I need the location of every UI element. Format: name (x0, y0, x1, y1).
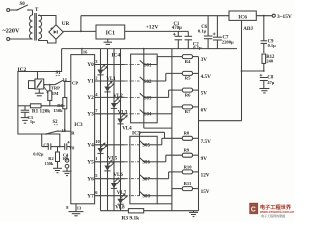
switch S06 (125, 158, 157, 166)
node Y4 output pin 10 (87, 139, 125, 148)
wire secondary top to bridge (39, 15, 56, 25)
switch S04 (125, 110, 157, 118)
wire raw DC riser (80, 16, 82, 32)
switch S1 (49, 71, 63, 86)
svg-text:9V: 9V (201, 156, 208, 162)
svg-text:1M: 1M (52, 91, 59, 96)
label 15V (201, 189, 210, 195)
svg-text:C: C (251, 207, 256, 214)
svg-text:ADJ: ADJ (243, 27, 253, 32)
svg-text:UR: UR (62, 21, 70, 27)
svg-text:7.5V: 7.5V (201, 139, 211, 145)
wire IC5 common bus (140, 132, 165, 196)
LED VL6 (104, 160, 123, 178)
wire jog S06 to R9 (157, 155, 182, 162)
label ~220V (3, 27, 20, 34)
svg-text:IC6: IC6 (238, 14, 247, 20)
svg-text:Y2: Y2 (87, 95, 94, 101)
svg-text:VL6: VL6 (113, 173, 123, 178)
svg-text:0.1μ: 0.1μ (198, 29, 207, 34)
LED VL5 (97, 142, 117, 161)
wire secondary bottom to bridge (39, 39, 56, 43)
wire CP pin14 (62, 77, 71, 82)
svg-text:R5: R5 (185, 76, 191, 81)
wire reset pin15 (58, 128, 71, 133)
svg-text:150k: 150k (45, 161, 54, 166)
svg-text:+12V: +12V (146, 25, 159, 31)
label 4.5V (201, 74, 211, 80)
label 12V (201, 173, 210, 179)
label 3V (201, 57, 208, 63)
svg-text:4.5V: 4.5V (201, 74, 211, 80)
svg-text:6V: 6V (201, 108, 208, 114)
node Y6 output pin 5 (87, 173, 125, 182)
switch S01 (125, 60, 157, 68)
regulator IC6 (229, 11, 256, 32)
ground photo device (35, 89, 44, 96)
LED VL4 (117, 113, 132, 131)
capacitor C2 0.1u (185, 31, 202, 50)
svg-text:Y6: Y6 (87, 176, 94, 182)
LED VL7 (111, 177, 127, 195)
wire +12V rail (125, 25, 189, 32)
svg-text:470μ: 470μ (172, 26, 182, 31)
svg-text:3~15V: 3~15V (277, 14, 292, 20)
svg-text:C5: C5 (43, 142, 49, 147)
ground C8 (259, 89, 269, 93)
resistor R2 150k (45, 147, 60, 169)
wire gap vertical link (171, 49, 173, 211)
regulator IC1 (96, 25, 125, 39)
capacitor C8 47u (260, 74, 275, 89)
label IC2 (18, 67, 27, 73)
svg-text:240: 240 (266, 59, 274, 64)
switch S2 (45, 120, 58, 135)
watermark logo (250, 203, 295, 218)
switch S0 (10, 2, 33, 11)
node Y1 output pin 2 (87, 75, 125, 84)
wire ADJ junction (241, 70, 265, 72)
resistor R10 (182, 164, 198, 174)
svg-text:Y5: Y5 (87, 159, 94, 165)
label 7.5V (201, 139, 211, 145)
capacitor C9 0.1u (261, 15, 277, 53)
LED VL3 (111, 97, 128, 115)
wire LED column 2 (107, 49, 109, 211)
svg-text:47μ: 47μ (267, 80, 274, 85)
wire IC5 box bottom extension (157, 203, 172, 205)
wire jog S08 to R11 (157, 189, 182, 196)
resistor R9 (182, 148, 198, 158)
node AC input terminal top (7, 9, 10, 12)
switch S02 (125, 77, 157, 85)
svg-text:VL3: VL3 (118, 111, 128, 116)
wire jog S04 to R7 (157, 107, 182, 114)
svg-text:IC3: IC3 (74, 122, 83, 128)
node Y2 output pin 4 (87, 92, 125, 101)
svg-text:1μ: 1μ (30, 119, 35, 124)
switch S05 (125, 141, 157, 149)
node Y5 output pin 1 (87, 156, 125, 165)
ground bottom rail (189, 211, 198, 217)
svg-text:150k: 150k (53, 108, 63, 113)
wire bridge output to IC1 (63, 31, 96, 33)
svg-text:15V: 15V (201, 189, 210, 195)
svg-text:S2: S2 (53, 120, 59, 125)
switch S03 (125, 93, 157, 101)
svg-text:电子工程师的家园: 电子工程师的家园 (261, 213, 285, 218)
svg-text:12V: 12V (201, 173, 210, 179)
svg-text:R1 120k: R1 120k (32, 108, 50, 114)
svg-text:Y7: Y7 (87, 193, 94, 199)
node AC input terminal bottom (7, 38, 10, 41)
svg-text:IC2: IC2 (18, 67, 27, 73)
wire jog S02 to R5 (157, 73, 182, 81)
wire IC3 pin16 to rail (81, 48, 88, 55)
node Y7 output pin 6 (87, 190, 125, 199)
LED VL8 (115, 193, 128, 210)
photo receiver IC2 device (29, 72, 50, 90)
svg-text:IC4: IC4 (112, 53, 121, 59)
bridge rectifier UR (49, 21, 70, 39)
svg-text:Y4: Y4 (87, 142, 94, 148)
wire LED column 4 (120, 49, 122, 211)
resistor R0 150k (53, 82, 67, 132)
wire ADJ bus (198, 57, 200, 211)
ground IC3 pins 8 13 (66, 204, 83, 216)
capacitor C6 0.1u (198, 16, 212, 49)
capacitor C4 10u (62, 141, 70, 161)
ground IC1 (104, 39, 112, 44)
label 5V (201, 91, 208, 97)
svg-text:R10: R10 (184, 164, 193, 169)
svg-text:VL8: VL8 (115, 206, 125, 211)
svg-text:0.1μ: 0.1μ (268, 43, 276, 48)
svg-text:~220V: ~220V (3, 27, 20, 34)
wire bottom rail (101, 210, 199, 212)
svg-text:VL7: VL7 (117, 191, 127, 196)
svg-text:VL5: VL5 (108, 156, 118, 161)
capacitor C1 470u (172, 22, 182, 49)
svg-text:R6: R6 (185, 92, 191, 97)
wire IC2 bottom boundary (46, 134, 60, 147)
svg-text:VL4: VL4 (122, 126, 132, 131)
svg-text:0.1μ: 0.1μ (193, 45, 202, 50)
svg-text:R3 9.1k: R3 9.1k (122, 215, 140, 221)
wire AC bottom (10, 38, 33, 40)
wire LED column 1 (100, 49, 102, 211)
node Y3 output pin 7 (87, 108, 125, 117)
wire LED column 3 (113, 49, 115, 211)
svg-text:R4: R4 (185, 59, 191, 64)
capacitor C3 1u (21, 106, 35, 124)
ground R2 (53, 168, 62, 172)
ground C3 (21, 118, 30, 124)
svg-text:10: 10 (95, 139, 100, 144)
svg-text:Y3: Y3 (87, 111, 94, 117)
resistor R5 (182, 71, 198, 80)
counter IC3 (69, 55, 95, 204)
wire IC2 enclosure (18, 49, 62, 134)
svg-text:IC1: IC1 (106, 30, 115, 36)
wire ADJ tap (199, 20, 242, 120)
resistor R12 240 (262, 54, 275, 71)
resistor R4 (182, 55, 198, 64)
node output terminal 3~15V (272, 14, 292, 20)
svg-text:R11: R11 (184, 181, 192, 186)
svg-text:Y1: Y1 (87, 79, 94, 85)
capacitor C7 2200u (213, 16, 234, 49)
svg-text:3V: 3V (201, 57, 208, 63)
svg-text:R8: R8 (184, 131, 190, 136)
resistor R3 9.1k (122, 209, 144, 222)
wire jog S03 to R6 (157, 90, 182, 97)
wire jog S07 to R10 (157, 172, 182, 179)
svg-text:CP: CP (72, 81, 78, 86)
svg-text:2200μ: 2200μ (222, 40, 234, 45)
wire IC6 output (256, 15, 272, 17)
svg-text:S0: S0 (20, 2, 26, 7)
svg-text:0.02μ: 0.02μ (33, 152, 44, 157)
ground test jacks (63, 171, 72, 175)
LED VL2 (104, 81, 123, 99)
potentiometer TRP 1M (44, 85, 61, 106)
wire jog S05 to R8 (157, 138, 182, 145)
svg-text:Y0: Y0 (87, 62, 94, 68)
svg-text:VL1: VL1 (106, 77, 116, 82)
label 6V (201, 108, 208, 114)
svg-text:Y8: Y8 (69, 145, 75, 150)
resistor R8 (182, 131, 198, 141)
node test jacks (65, 155, 69, 172)
label 9V (201, 156, 208, 162)
resistor R7 (182, 105, 198, 114)
wire common rail (62, 48, 237, 50)
svg-text:5V: 5V (201, 91, 208, 97)
resistor R11 (182, 181, 198, 191)
capacitor C5 0.02u (33, 134, 64, 157)
node Y0 output pin 3 (87, 59, 125, 68)
resistor R1 120k (18, 104, 65, 115)
switch S07 (125, 175, 157, 183)
LED VL1 (97, 64, 116, 82)
wire jog S01 to R4 (157, 57, 182, 65)
svg-text:R9: R9 (184, 148, 190, 153)
analog switch IC4 box (112, 53, 158, 123)
analog switch IC5 box (130, 130, 157, 204)
switch S08 (125, 192, 157, 200)
svg-text:R7: R7 (185, 109, 191, 114)
resistor R6 (182, 88, 198, 97)
transformer T (30, 8, 42, 41)
wire IC4 common bus (143, 48, 172, 128)
wire raw DC line to IC6 (81, 15, 229, 17)
